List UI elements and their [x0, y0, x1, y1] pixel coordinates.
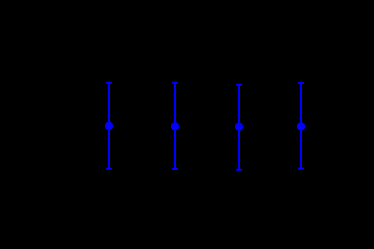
- errorbar 4 top cap: [298, 82, 304, 84]
- errorbar 4 marker: [297, 122, 305, 130]
- errorbar 2 bottom cap: [172, 168, 178, 170]
- errorbar 1 marker: [105, 122, 113, 130]
- errorbar 2 vertical line: [174, 83, 176, 169]
- errorbar 1 top cap: [106, 82, 112, 84]
- errorbar 3 top cap: [236, 84, 242, 86]
- errorbar 3 vertical line: [238, 85, 240, 170]
- errorbar 2 marker: [171, 122, 179, 130]
- errorbar 1 vertical line: [108, 83, 110, 169]
- errorbar 2 top cap: [172, 82, 178, 84]
- errorbar 1 bottom cap: [106, 168, 112, 170]
- errorbar 4 bottom cap: [298, 168, 304, 170]
- errorbar 4 vertical line: [300, 83, 302, 169]
- errorbar 3 marker: [235, 123, 243, 131]
- errorbar 3 bottom cap: [236, 169, 242, 171]
